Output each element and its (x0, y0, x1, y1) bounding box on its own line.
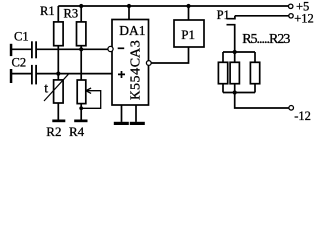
wire P1 top pin to rail (188, 6, 190, 20)
terminal -12 circle (289, 106, 294, 111)
wire bank bottom-left corner (222, 84, 224, 93)
junction dot R3/rail (79, 4, 83, 8)
wire R3 bottom lead down through line1, line2 to R4 (80, 46, 82, 80)
junction dot bank top (233, 50, 237, 54)
wire bank to -12 line (235, 93, 289, 109)
device P1 box (174, 20, 204, 47)
junction dot R3-lead/line1 (79, 47, 83, 51)
terminal +12 circle (289, 14, 293, 18)
capacitor C1 (32, 41, 36, 58)
wire R1 top to +5 rail (corner) (57, 6, 59, 22)
output circle of DA1 (146, 61, 151, 66)
terminal +5 circle (289, 4, 293, 8)
thermistor R2 body (54, 80, 64, 103)
wire C2 terminal to C2 left plate (11, 73, 31, 75)
wire bank bottom-right corner (254, 84, 256, 93)
wire +5 rail (58, 5, 288, 7)
svg-text:R4: R4 (69, 124, 85, 139)
wire R2 bottom lead (57, 103, 59, 120)
capacitor C2 (32, 65, 36, 85)
svg-text:P1: P1 (217, 8, 230, 22)
plus sign (non-inverting input) (118, 71, 125, 78)
svg-text:R1: R1 (40, 4, 55, 18)
ground bar under R4 (74, 120, 87, 123)
wire DA1 power pin to rail (128, 6, 130, 20)
svg-text:К554СА3: К554СА3 (129, 40, 144, 100)
svg-text:-12: -12 (294, 109, 311, 123)
resistor R5 (bank left) (218, 62, 227, 83)
resistor bank middle (230, 62, 239, 83)
ground bar under DA1 pin 1 (114, 122, 129, 125)
junction dot R1-lead/line2 (56, 72, 60, 76)
minus sign (inverting input) (118, 47, 125, 49)
wire R4 bottom lead (80, 103, 82, 119)
wire resistor bank top rail (223, 51, 255, 53)
svg-text:+12: +12 (294, 12, 314, 26)
svg-text:DA1: DA1 (119, 23, 145, 38)
terminal bar (input to C1) (10, 44, 13, 56)
svg-text:C2: C2 (12, 55, 27, 69)
wire to +12 terminal (235, 15, 289, 17)
junction dot bank bottom (233, 90, 237, 94)
op-amp comparator DA1 box (112, 20, 149, 106)
wire R1 bottom lead down through line1 to line2 and R2 (57, 46, 59, 80)
ground bar under DA1 pin 2 (130, 122, 145, 125)
connector P1 lower contact (to resistor bank) (227, 25, 235, 52)
wire DA1 bottom pin 1 (121, 105, 123, 122)
terminal bar (input to C2) (10, 69, 13, 83)
thermistor R2 diagonal (44, 74, 68, 101)
svg-text:R5.....R23: R5.....R23 (242, 32, 290, 47)
wire bank top-left corner to R5 body (222, 52, 224, 62)
junction dot DA1/rail (127, 4, 131, 8)
potentiometer R4 wiper arrow (81, 88, 101, 108)
ground bar under R2 (52, 120, 65, 123)
resistor R23 (bank right) (250, 62, 259, 83)
resistor R1 (54, 22, 63, 46)
potentiometer R4 body (77, 80, 86, 104)
connector P1 upper contact (to +12) (227, 16, 235, 19)
junction dot R4 wiper/bottom lead (79, 106, 83, 110)
wire DA1 output to P1 (151, 47, 188, 63)
svg-text:P1: P1 (181, 27, 195, 42)
wire bank mid lead top (234, 52, 236, 62)
resistor R3 (77, 22, 86, 46)
wire node B: C2 to non-inverting input of DA1 (line2) (37, 73, 112, 75)
wire DA1 bottom pin 2 (135, 105, 137, 122)
wire bank bottom rail (223, 92, 255, 94)
svg-text:t: t (44, 82, 48, 97)
svg-text:C1: C1 (14, 29, 29, 43)
svg-text:R3: R3 (64, 7, 79, 21)
wire node A: C1 to inverting input of DA1 (line1) (37, 48, 108, 50)
junction dot P1/rail (186, 4, 190, 8)
wire bank top-right corner to R23 body (254, 52, 256, 62)
svg-text:R2: R2 (46, 124, 61, 139)
wire R3 top lead to rail (80, 6, 82, 22)
inverting input circle of DA1 (108, 46, 113, 51)
wire C1 terminal to C1 left plate (11, 48, 31, 50)
wire bank mid lead bottom (234, 84, 236, 93)
